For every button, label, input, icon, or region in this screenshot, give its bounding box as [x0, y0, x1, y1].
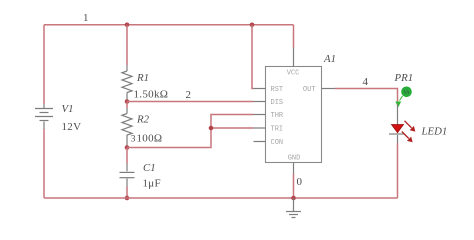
junction: top rail to R1 [125, 23, 130, 28]
junction: node 3 (R2/C1) [125, 145, 130, 150]
wire: left vertical battery to bottom rail [43, 129, 45, 198]
wire: top-left vertical from top rail to battery [43, 25, 45, 104]
pin CON stub [254, 141, 266, 143]
pin OUT stub [322, 88, 336, 90]
svg-text:1μF: 1μF [143, 178, 161, 190]
svg-text:VCC: VCC [287, 70, 300, 78]
timer U1 (A1) body [254, 48, 336, 175]
svg-text:PR1: PR1 [394, 72, 414, 84]
wire: node 3 to THR [127, 115, 254, 148]
svg-text:VA: VA [404, 90, 410, 95]
svg-text:R1: R1 [136, 72, 149, 84]
junction: top rail to RST [250, 23, 255, 28]
pin RST stub [254, 88, 266, 90]
wire: drop to VCC pin [293, 25, 295, 48]
junction: node 2 (R1/R2/DIS) [125, 99, 130, 104]
svg-text:3: 3 [131, 135, 136, 145]
wire: LED to bottom rail [397, 143, 399, 198]
svg-text:A1: A1 [323, 53, 336, 65]
wire: R1 branch from top rail [126, 25, 128, 65]
svg-text:100Ω: 100Ω [137, 133, 163, 145]
resistor R1 [122, 65, 168, 102]
pin GND stub [293, 163, 295, 175]
battery V1 [35, 103, 81, 133]
svg-text:V1: V1 [62, 103, 74, 115]
wire: OUT to LED branch (node 4) [335, 89, 398, 104]
svg-text:R2: R2 [136, 114, 150, 126]
ground [286, 198, 301, 218]
probe PR1 [394, 72, 414, 107]
wire: node 2 to DIS [127, 101, 254, 103]
svg-text:LED1: LED1 [421, 126, 448, 138]
svg-text:THR: THR [271, 112, 284, 120]
svg-text:1: 1 [83, 12, 89, 24]
pin TRI stub [254, 127, 266, 129]
capacitor C1 [120, 162, 161, 190]
svg-text:1.50kΩ: 1.50kΩ [134, 89, 169, 101]
junction: ground tap [291, 196, 296, 201]
wire: node2 to R2 [126, 102, 128, 109]
wire: node 3 to C1 [126, 148, 128, 164]
junction: TRI tap [209, 126, 214, 131]
svg-text:OUT: OUT [303, 86, 316, 94]
svg-text:RST: RST [271, 86, 284, 94]
LED1 [389, 104, 447, 144]
svg-text:4: 4 [363, 76, 369, 88]
svg-text:0: 0 [297, 176, 303, 188]
wire: drop to RST pin [252, 25, 254, 89]
svg-text:TRI: TRI [271, 126, 284, 134]
pin DIS stub [254, 101, 266, 103]
wire: top rail [44, 24, 294, 26]
svg-text:12V: 12V [62, 121, 82, 133]
junction: C1 bottom rail [125, 196, 130, 201]
pin VCC stub [293, 48, 295, 67]
svg-text:C1: C1 [143, 162, 156, 174]
wire: bottom rail [44, 197, 398, 199]
svg-text:GND: GND [288, 155, 301, 163]
pin THR stub [254, 114, 266, 116]
wire: TRI branch [211, 127, 254, 129]
wire: C1 to bottom rail [126, 187, 128, 199]
resistor R2 [122, 108, 150, 148]
svg-text:DIS: DIS [271, 99, 284, 107]
wire: GND pin to bottom rail [293, 174, 295, 198]
svg-text:CON: CON [271, 139, 284, 147]
svg-text:2: 2 [186, 89, 192, 101]
